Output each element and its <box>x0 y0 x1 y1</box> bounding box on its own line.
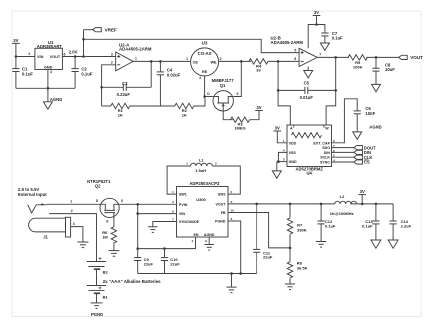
wire ground stub <box>231 274 233 288</box>
wire VREF rail to U2-B <box>84 39 300 52</box>
svg-text:PVIN: PVIN <box>179 203 188 207</box>
resistor R7 330K <box>287 204 306 248</box>
wire SYNC/MODE to ground <box>153 222 177 227</box>
svg-text:ADP2503ACPZ: ADP2503ACPZ <box>189 181 220 186</box>
junction output/W riser <box>334 56 337 59</box>
connector J1 barrel jack <box>28 203 71 239</box>
svg-text:0.1uF: 0.1uF <box>362 224 373 229</box>
resistor R4 33 <box>249 59 268 73</box>
svg-text:U4: U4 <box>307 171 313 176</box>
wire bottom ground rail <box>138 273 257 275</box>
svg-text:1: 1 <box>135 57 137 61</box>
wire EN rail <box>138 237 196 249</box>
wire U4 VDD <box>277 131 287 143</box>
svg-text:2: 2 <box>220 57 222 61</box>
svg-text:1K: 1K <box>182 112 187 117</box>
junction FB node <box>289 247 292 250</box>
svg-text:0.1uF: 0.1uF <box>22 71 33 76</box>
svg-text:DIN: DIN <box>324 151 331 155</box>
ground AGND (U5) <box>205 245 214 251</box>
op-amp U2-B ADA4505-2ARM <box>271 35 322 66</box>
svg-text:3: 3 <box>73 222 75 226</box>
junction C3 riser <box>150 60 153 63</box>
svg-text:GND: GND <box>289 160 297 164</box>
wire VREF riser <box>83 30 85 57</box>
ground AGND (C7) <box>320 43 329 50</box>
junction C4 tap <box>159 60 162 63</box>
svg-text:2: 2 <box>111 61 113 65</box>
svg-text:3V: 3V <box>314 10 319 15</box>
svg-text:PGND: PGND <box>215 220 226 224</box>
svg-text:Q2: Q2 <box>95 183 101 188</box>
svg-text:0.1uF: 0.1uF <box>325 224 336 229</box>
ground PGND (R6) <box>108 251 119 257</box>
svg-text:0.22uF: 0.22uF <box>117 92 131 97</box>
svg-text:SCLK: SCLK <box>320 156 330 160</box>
svg-text:VREF: VREF <box>105 27 117 32</box>
capacitor C13 <box>362 204 379 240</box>
junction VREF rail <box>82 38 85 41</box>
ground AGND (SYNC) <box>148 227 158 233</box>
svg-text:PGND: PGND <box>91 312 103 317</box>
power flag 3V (Q1 gate) <box>255 105 263 111</box>
svg-text:S: S <box>236 92 238 96</box>
capacitor C9 <box>134 249 153 274</box>
svg-text:10uF: 10uF <box>385 67 395 72</box>
svg-text:SDO: SDO <box>322 146 330 150</box>
svg-text:3: 3 <box>111 52 113 56</box>
port VOUT <box>399 55 424 60</box>
wire U2-B output <box>317 56 349 58</box>
svg-text:C3: C3 <box>122 81 128 86</box>
svg-text:CS: CS <box>364 160 370 165</box>
svg-text:3V: 3V <box>13 38 18 43</box>
wire R5 to VOUT port <box>366 56 398 58</box>
capacitor C6 <box>354 106 376 132</box>
junction VREF riser <box>82 55 85 58</box>
power flag 3V (U4 VDD) <box>274 125 282 131</box>
capacitor C2 <box>72 57 93 89</box>
capacitor C8 <box>372 57 395 84</box>
capacitor C7 <box>321 31 343 43</box>
svg-text:VOUT: VOUT <box>216 202 227 206</box>
svg-text:VSS: VSS <box>289 151 297 155</box>
transistor Q1 MMBFJ177 <box>207 78 238 111</box>
svg-text:2: 2 <box>71 209 73 213</box>
wire FB route <box>228 213 290 248</box>
wire U2-A inverting input <box>102 65 116 88</box>
wire AGND rail under C1 C2 <box>16 87 75 89</box>
wire R2 to sensor RE node <box>194 97 205 107</box>
svg-text:VIN: VIN <box>37 55 44 59</box>
ground AGND (C8) <box>372 84 381 91</box>
wire U1 VOUT 2.0V rail <box>62 49 115 56</box>
svg-text:L2: L2 <box>340 194 345 199</box>
junction C2 tap <box>74 55 77 58</box>
wire L2 to 3V <box>350 203 393 205</box>
wire A-terminal riser <box>278 90 290 125</box>
junction C10 tap <box>163 247 166 250</box>
ground PGND (battery) <box>91 303 104 317</box>
svg-text:3V: 3V <box>275 125 280 130</box>
wire to U1 VIN pin 2 <box>16 52 35 56</box>
wire Q2 to PVIN <box>119 203 176 205</box>
capacitor C10 <box>161 249 180 274</box>
wire C5 row <box>278 89 336 91</box>
svg-text:22uF: 22uF <box>144 262 154 267</box>
ground AGND (C13) <box>371 240 381 248</box>
svg-text:1K@100MHz: 1K@100MHz <box>330 211 354 216</box>
resistor R1 1K <box>111 103 130 117</box>
svg-text:2.2uF: 2.2uF <box>401 224 412 229</box>
ground PGND (J1) <box>77 242 88 248</box>
svg-text:33: 33 <box>256 68 261 73</box>
svg-text:0.01uF: 0.01uF <box>300 95 314 100</box>
ground PGND (C12) <box>316 242 326 248</box>
junction 3V supply <box>315 23 318 26</box>
text external input note <box>18 187 47 197</box>
svg-text:330K: 330K <box>297 227 307 232</box>
svg-text:1K: 1K <box>118 112 123 117</box>
junction C5 left <box>277 89 280 92</box>
svg-text:B2: B2 <box>103 270 109 275</box>
junction feedback tap <box>277 60 280 63</box>
port VREF <box>93 27 117 32</box>
svg-text:0.1uF: 0.1uF <box>81 71 92 76</box>
junction C3 row left <box>100 86 103 89</box>
svg-text:SW2: SW2 <box>218 193 226 197</box>
svg-text:0.02uF: 0.02uF <box>167 73 181 78</box>
power flag 3V (U2-B) <box>313 10 321 25</box>
wire sensor RE down <box>199 76 204 97</box>
wire SDO <box>332 147 354 149</box>
digital rheostat U4 AD5270BRMZ <box>283 124 335 175</box>
wire to AGND (U4) <box>276 162 278 171</box>
svg-text:4: 4 <box>50 70 52 74</box>
svg-text:5: 5 <box>294 48 296 52</box>
junction C13 tap <box>375 203 378 206</box>
junction Q2 output <box>136 203 139 206</box>
wire SYNC <box>332 161 354 163</box>
svg-text:6: 6 <box>64 52 66 56</box>
svg-text:2x “AAA” Alkaline Batteries: 2x “AAA” Alkaline Batteries <box>103 279 161 284</box>
wire VOUT rail <box>228 203 335 205</box>
svg-text:SYNC: SYNC <box>320 161 330 165</box>
capacitor C5 <box>300 80 314 100</box>
ground AGND (U2-B) <box>304 71 313 78</box>
wire R1 to R2 <box>130 105 175 107</box>
ground PGND (R8) <box>285 284 295 290</box>
svg-text:1MEG: 1MEG <box>234 126 245 131</box>
wire J1 pin 2 to battery <box>49 209 96 262</box>
wire sensor WE to R4 <box>219 60 251 62</box>
ground AGND (U1) <box>43 97 62 109</box>
wire AGND pin <box>208 237 210 245</box>
wire VIN branch <box>138 213 177 215</box>
svg-text:EXT_CAP: EXT_CAP <box>313 141 330 145</box>
wire SCLK <box>332 156 354 158</box>
port DOUT <box>354 145 376 150</box>
port CLK <box>354 155 373 160</box>
capacitor C12 <box>318 204 336 242</box>
svg-text:22uF: 22uF <box>170 262 180 267</box>
svg-text:1M: 1M <box>102 235 108 240</box>
wire J1 pin 1 to Q2 <box>47 200 101 205</box>
wire U2-A output to sensor CE <box>133 60 191 62</box>
wire R3 to 3V flag <box>250 111 259 120</box>
wire Q1 gate to R3 <box>223 111 233 120</box>
wire L1 to SW2 <box>212 166 240 194</box>
power flag 3V (rail) <box>358 189 366 204</box>
wire inverting node to R1 <box>102 87 111 106</box>
junction 3V flag tap <box>361 203 364 206</box>
transistor Q2 NTR1P02T1 <box>87 179 123 227</box>
port CS <box>354 160 370 165</box>
svg-text:1: 1 <box>70 200 72 204</box>
svg-text:VOUT: VOUT <box>410 55 423 60</box>
svg-text:CE: CE <box>193 61 199 65</box>
svg-text:3V: 3V <box>360 189 365 194</box>
svg-text:6: 6 <box>294 57 296 61</box>
junction WE riser <box>240 60 243 63</box>
junction C5 right <box>334 89 337 92</box>
svg-text:EN: EN <box>194 233 199 237</box>
svg-text:U300: U300 <box>196 197 206 202</box>
svg-text:22uF: 22uF <box>263 255 273 260</box>
svg-text:External Input: External Input <box>18 192 47 197</box>
svg-text:L1: L1 <box>199 157 204 162</box>
junction C11 tap <box>255 203 258 206</box>
wire U4 GND <box>277 161 287 163</box>
resistor R3 1MEG <box>230 117 249 131</box>
battery B2 <box>87 257 109 285</box>
wire U1 GND to AGND rail <box>47 70 49 102</box>
svg-text:CO-AX: CO-AX <box>198 51 212 56</box>
junction RE / Q1 drain <box>203 95 206 98</box>
junction C8 tap <box>375 56 378 59</box>
junction R7 tap <box>289 203 292 206</box>
junction C12 tap <box>320 203 323 206</box>
capacitor C1 <box>12 57 33 89</box>
wire input riser <box>137 204 139 248</box>
svg-text:WE: WE <box>210 61 217 65</box>
svg-text:VIN: VIN <box>179 212 185 216</box>
svg-text:10: 10 <box>231 209 235 213</box>
ground AGND (C14) <box>388 240 398 248</box>
junction GND rail <box>47 87 50 90</box>
svg-text:ADA4505-2ARM: ADA4505-2ARM <box>119 47 152 52</box>
svg-text:Q1: Q1 <box>220 83 226 88</box>
capacitor C11 <box>253 204 273 274</box>
svg-text:VOUT: VOUT <box>50 55 61 59</box>
wire U2-B V- to AGND <box>307 67 309 71</box>
inductor L2 ferrite bead <box>330 194 357 216</box>
svg-text:1: 1 <box>186 57 188 61</box>
svg-text:0.1uF: 0.1uF <box>332 36 343 41</box>
svg-text:2.0V: 2.0V <box>69 49 78 54</box>
wire Q1 drain <box>205 96 213 98</box>
svg-text:AGND: AGND <box>50 97 62 102</box>
port DIN <box>354 150 371 155</box>
svg-text:1.5uH: 1.5uH <box>195 168 206 173</box>
svg-text:ADA4505-2ARM: ADA4505-2ARM <box>271 40 304 45</box>
inductor L1 1.5uH <box>186 157 217 173</box>
op-amp U2-A ADA4505-2ARM <box>111 42 152 71</box>
svg-text:SYNC/MODE: SYNC/MODE <box>179 220 200 224</box>
wire PGND pin <box>228 221 241 274</box>
wire J1 pin 3 sleeve <box>71 222 83 242</box>
voltage reference U1 ADR380 <box>35 40 66 74</box>
wire feedback riser left <box>277 61 279 90</box>
wire 3V to U1 VIN node <box>15 43 17 56</box>
buck-boost regulator U5 ADP2503 <box>172 181 234 243</box>
svg-text:36.5K: 36.5K <box>297 265 308 270</box>
wire U2-B V+ supply <box>308 25 325 49</box>
svg-text:W: W <box>325 126 329 130</box>
wire SW1 to L1 <box>167 166 190 194</box>
wire U4 VSS <box>278 152 287 161</box>
wire R4 to U2-B inverting <box>268 60 299 62</box>
resistor R2 1K <box>175 103 194 117</box>
wire W-terminal riser <box>326 90 336 125</box>
capacitor C14 <box>390 204 412 240</box>
wire C3 riser to output <box>150 61 152 87</box>
svg-text:AGND: AGND <box>369 125 381 130</box>
resistor R5 100K <box>348 55 367 70</box>
wire C3 row <box>102 86 152 88</box>
svg-text:J1: J1 <box>43 235 48 240</box>
capacitor C4 <box>157 61 181 106</box>
ground AGND (U4) <box>272 171 281 178</box>
svg-text:7: 7 <box>319 53 321 57</box>
svg-text:2: 2 <box>28 52 30 56</box>
wire R6 to ground <box>113 243 115 251</box>
svg-text:10nF: 10nF <box>365 111 375 116</box>
wire DIN <box>332 151 354 153</box>
svg-text:U3: U3 <box>202 41 208 46</box>
text battery note <box>103 279 161 284</box>
gas sensor U3 CO-AX <box>186 41 221 76</box>
junction VSS/GND <box>277 160 280 163</box>
resistor R6 1M <box>102 227 116 243</box>
junction VIN branch <box>136 212 139 215</box>
power flag 3V (U1 supply) <box>12 38 20 44</box>
svg-text:B1: B1 <box>103 294 109 299</box>
battery B1 <box>87 286 109 303</box>
junction C9 rail <box>136 247 139 250</box>
svg-text:3V: 3V <box>256 105 261 110</box>
svg-text:VDD: VDD <box>289 141 297 145</box>
svg-text:AGND: AGND <box>204 233 215 237</box>
junction at C1/VIN <box>15 55 18 58</box>
svg-text:S: S <box>121 199 123 203</box>
svg-text:3: 3 <box>199 76 201 80</box>
svg-text:ADR380ART: ADR380ART <box>37 44 63 49</box>
resistor R8 36.5K <box>287 248 307 284</box>
svg-text:C5: C5 <box>304 80 310 85</box>
junction ground tee <box>230 272 233 275</box>
wire to VREF port <box>84 29 93 31</box>
ground AGND (C6) <box>353 125 382 140</box>
capacitor C3 <box>117 81 131 97</box>
svg-text:FB: FB <box>221 211 226 215</box>
svg-text:SW1: SW1 <box>179 193 187 197</box>
wire EXT_CAP to C6 <box>332 99 358 143</box>
svg-text:100K: 100K <box>353 64 363 69</box>
svg-text:RE: RE <box>202 70 208 74</box>
wire output riser <box>335 57 337 90</box>
ground PGND (rail) <box>226 287 236 293</box>
wire Q1 source to WE node <box>233 61 241 96</box>
junction PGND riser <box>239 272 242 275</box>
